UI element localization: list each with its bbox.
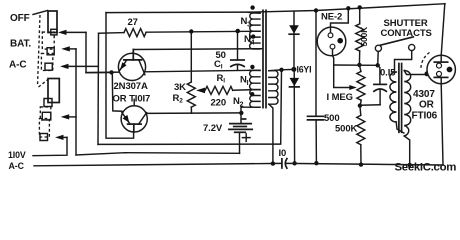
wire N3-N4 junction	[235, 29, 260, 34]
svg-text:1I0V: 1I0V	[8, 150, 26, 160]
switch S1 dashed body 1	[42, 32, 54, 49]
svg-text:27: 27	[128, 17, 138, 28]
arrow BAT contact	[61, 46, 76, 51]
svg-text:2N307A: 2N307A	[114, 81, 148, 92]
wire rectifier row 16Y1	[282, 68, 295, 70]
node R3 top rail	[358, 5, 362, 9]
label N1	[240, 75, 249, 88]
neon lamp NE-2	[317, 8, 348, 55]
switch S1 contact square 3	[45, 63, 52, 70]
transformer T1 secondary winding	[269, 70, 282, 164]
svg-text:NE-2: NE-2	[321, 12, 342, 23]
label 500K vertical	[359, 26, 369, 47]
node N1 polarity dot	[250, 65, 254, 69]
svg-text:500K: 500K	[359, 26, 369, 47]
svg-text:I MEG: I MEG	[327, 92, 353, 103]
arrow mains contact	[55, 135, 67, 140]
node R2 top	[189, 29, 193, 33]
resistor R5 500K bottom	[357, 106, 365, 165]
svg-text:BAT.: BAT.	[10, 39, 31, 50]
switch S1 dashed link lower	[39, 80, 48, 88]
wire Q1 emitter row	[86, 70, 252, 72]
svg-text:A-C: A-C	[9, 161, 25, 171]
label N4	[244, 34, 255, 47]
arrow A-C contact	[60, 64, 98, 69]
label R2	[173, 82, 187, 105]
svg-text:3K: 3K	[174, 82, 186, 93]
label N3	[241, 16, 252, 29]
label Q1 type	[113, 81, 151, 105]
svg-text:FTI06: FTI06	[412, 111, 438, 122]
wire NE-2 to wiper	[333, 56, 357, 90]
wire divider to trigger node	[334, 64, 378, 66]
node R4 bottom	[358, 103, 362, 107]
transformer T1 winding N2	[250, 90, 260, 108]
label 1 MEG	[327, 92, 353, 103]
arrow lower A-C contact	[61, 114, 76, 119]
label 500K bottom	[335, 124, 358, 135]
resistor R3 500K top	[356, 7, 364, 65]
wire feedback vertical	[97, 33, 100, 144]
svg-text:A-C: A-C	[9, 60, 26, 71]
trigger transformer T2 core	[399, 64, 402, 133]
svg-text:7.2V: 7.2V	[203, 123, 223, 134]
wire Q1 base row	[133, 48, 261, 51]
shutter contact left	[375, 45, 381, 65]
battery B1 7.2V	[229, 119, 252, 153]
svg-text:4307: 4307	[413, 89, 435, 100]
capacitor C3 0.15	[374, 65, 386, 105]
node Q1 emitter junction	[109, 70, 113, 74]
wire left vertical to Q2 base	[106, 13, 134, 139]
node secondary bottom rail	[271, 161, 275, 165]
switch S1 contact square 4	[44, 99, 52, 107]
wire Q2 collector to battery	[148, 112, 242, 115]
label C1	[214, 50, 226, 71]
watermark SeekIC.com	[395, 162, 457, 174]
node N4 polarity dot	[251, 34, 255, 38]
switch S1 contact square 5	[42, 112, 51, 120]
transformer T1 winding N1	[250, 70, 261, 89]
label NE-2	[321, 12, 342, 23]
transistor Q2	[121, 99, 147, 132]
label N2	[233, 96, 244, 109]
wire mains top line	[33, 137, 67, 155]
transformer T1 winding N4	[250, 31, 260, 49]
switch S1 lower slider (solid)	[48, 79, 59, 103]
label OFF	[10, 13, 30, 24]
node C2 bottom	[314, 161, 318, 165]
label R1	[211, 73, 227, 109]
switch S1 dashed body 4	[39, 119, 49, 138]
node trigger secondary bottom	[408, 163, 412, 167]
diode D2 16Y1	[290, 69, 300, 163]
wire flash tube cathode	[441, 84, 443, 165]
node D2 bottom	[292, 161, 296, 165]
shutter contact right	[409, 44, 415, 50]
wire Q2 left lead from Q1 emitter node	[112, 72, 122, 111]
node N3 polarity dot	[250, 5, 254, 9]
svg-text:CONTACTS: CONTACTS	[381, 28, 432, 39]
switch S1 dashed body 2	[41, 53, 52, 70]
label A-C	[9, 60, 26, 71]
resistor R1 220	[205, 86, 250, 94]
label 500	[324, 113, 340, 124]
svg-text:500: 500	[324, 113, 340, 124]
node NE-2 top rail	[346, 6, 350, 10]
switch S1 contact square 1	[51, 29, 57, 35]
capacitor C2 500 branch	[308, 11, 324, 164]
switch S1 link line from OFF	[33, 11, 48, 15]
node battery negative junction	[239, 111, 243, 115]
node trigger electrode	[425, 71, 430, 76]
wire BAT to battery rail	[75, 49, 77, 155]
label 16Y1	[297, 65, 312, 75]
wire top rail	[106, 4, 445, 13]
node trigger cap junction	[376, 63, 380, 67]
switch S1 contact square 2	[47, 48, 54, 55]
transistor Q1	[118, 50, 145, 81]
label 0.15	[380, 68, 396, 79]
shutter blade	[380, 37, 413, 45]
diode D1 16Y1	[289, 11, 299, 69]
wire 27-ohm row	[99, 31, 253, 33]
node divider junction	[357, 63, 361, 67]
svg-text:I6YI: I6YI	[297, 65, 312, 75]
potentiometer R4 1 MEG	[357, 65, 365, 106]
wire cap 0.15 bottom row	[360, 104, 380, 106]
resistor R2 3K branch	[187, 31, 195, 113]
label A-C (mains)	[9, 161, 25, 171]
label 4307 OR FT106	[412, 89, 438, 122]
svg-text:OFF: OFF	[10, 13, 30, 24]
capacitor C1 50	[231, 31, 244, 70]
switch S1 contact square 6	[40, 134, 48, 141]
label 110V	[8, 150, 26, 160]
switch S1 upper slider (solid)	[48, 11, 57, 33]
svg-text:SeekIC.com: SeekIC.com	[395, 162, 457, 174]
flash tube V1 4307	[421, 4, 456, 84]
transformer T1 core	[263, 10, 266, 107]
svg-text:220: 220	[211, 98, 227, 109]
node C2 top	[314, 8, 318, 12]
svg-text:OR: OR	[419, 100, 435, 111]
svg-text:500K: 500K	[335, 124, 358, 135]
resistor 27	[124, 17, 146, 37]
node secondary top junction	[279, 68, 283, 72]
wire N2 to battery	[241, 107, 250, 123]
label BAT.	[10, 39, 31, 50]
transformer T1 winding N3	[248, 12, 260, 31]
svg-text:OR TI0I7: OR TI0I7	[113, 94, 151, 105]
capacitor C4 10	[282, 159, 287, 169]
wire return rail mid	[98, 70, 282, 145]
svg-text:I0: I0	[279, 148, 287, 159]
trigger transformer T2 secondary	[404, 71, 427, 165]
trigger transformer T2 primary	[390, 72, 404, 133]
node diode junction	[291, 67, 296, 72]
node R5 bottom rail	[359, 162, 363, 166]
wire OFF to Q1 emitter node	[86, 32, 109, 72]
label 10	[279, 148, 287, 159]
node N2 polarity dot	[250, 92, 254, 96]
wire shutter to trigger primary	[395, 51, 412, 72]
label battery 7.2V	[203, 123, 223, 134]
wire bottom rail	[34, 163, 443, 165]
switch S1 dashed link upper	[38, 15, 41, 86]
switch S1 dashed body 3	[40, 107, 51, 120]
arrow OFF contact	[58, 30, 86, 35]
wire battery positive rail	[76, 153, 240, 155]
potentiometer wiper R2	[196, 88, 205, 94]
label SHUTTER CONTACTS	[381, 18, 432, 39]
